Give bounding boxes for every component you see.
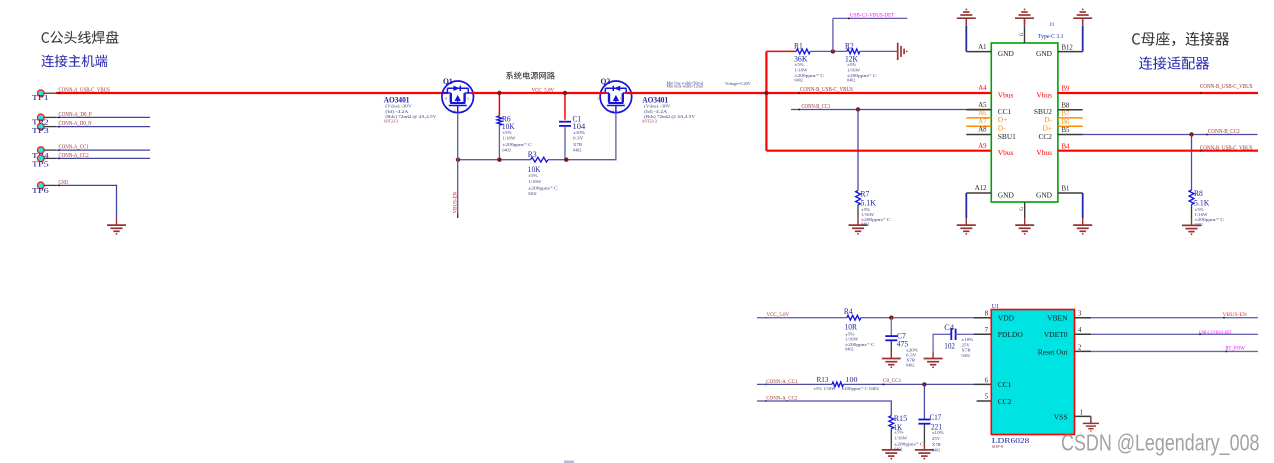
svg-text:±200ppm/° C: ±200ppm/° C [528,186,558,191]
junction at C1/VBUS [563,91,567,95]
wire VBUS to A9 (red) [766,150,991,152]
wire Q1 gate drop and VBUS-EN stub [457,113,459,214]
wire C17 top [923,384,925,419]
ground (top middle, inverted) [1024,18,1026,25]
resistor R2 [847,49,860,54]
svg-text:2: 2 [1078,344,1082,351]
svg-text:A8: A8 [978,127,987,134]
wire R8 top [1191,135,1193,191]
svg-text:1/16W: 1/16W [528,179,542,184]
ground (top right, inverted) [1082,18,1084,25]
svg-text:G: G [1020,207,1025,211]
svg-text:B4: B4 [1062,143,1071,150]
svg-text:±5% 1/16W: ±5% 1/16W [814,386,837,391]
capacitor C7 [885,335,897,337]
junction CC2/R8 [1189,132,1193,136]
svg-text:0402: 0402 [861,222,869,227]
svg-text:6: 6 [985,377,989,384]
svg-text:10R: 10R [845,322,858,331]
pin stub B1 [1058,192,1083,194]
wire CONN-A_D0_N (TP3) [56,126,150,128]
svg-text:100: 100 [846,375,858,384]
svg-text:C0_CC1: C0_CC1 [883,379,902,384]
svg-text:C17: C17 [930,413,942,422]
wire CONN-A_USB-C_VBUS (TP1, red VBUS to Q1) [56,92,447,94]
test point TP5 pad [38,155,45,162]
svg-text:R2: R2 [845,41,854,50]
svg-text:±5%: ±5% [795,62,805,67]
svg-text:VBUS-EN: VBUS-EN [453,191,458,213]
svg-text:5: 5 [985,393,989,400]
svg-text:R4: R4 [844,307,853,316]
pin stub A5 [967,109,991,111]
title host-side line 1 (traced CJK) [42,31,119,44]
svg-text:0402: 0402 [795,78,803,83]
pin stub B5 [1058,134,1083,136]
resistor R8 [1189,190,1194,205]
pin stub B7 [1058,117,1083,119]
pin stub 1 (VSS) + drop [1075,415,1091,417]
junction R1/R2 divider [831,49,835,53]
ground (VSS) [1083,417,1099,431]
test point TP2 pad [38,114,45,121]
svg-text:Vbus: Vbus [998,90,1014,99]
wire R6 bottom [498,125,500,160]
svg-text:CSDN @Legendary_008: CSDN @Legendary_008 [1061,429,1260,455]
wire gate row left segment [458,159,531,161]
svg-text:±5%: ±5% [847,62,857,67]
wire C1 top feed (red) [564,93,566,120]
wire C17 bottom [923,424,925,443]
svg-text:SBU1: SBU1 [998,132,1016,141]
resistor R3 [531,157,549,162]
svg-text:8: 8 [985,311,989,318]
svg-text:GND: GND [998,49,1015,58]
svg-text:C4: C4 [944,323,954,332]
wire B9 CONN-B_USB-C_VBUS (red) [1058,92,1258,94]
wire R1 to R2 [810,50,847,52]
svg-text:B5: B5 [1062,127,1071,134]
wire R2 to ground [860,50,898,52]
junction R6 / gate row [497,158,501,162]
connector J1 body (green box) [991,43,1058,202]
bottom edge text remnant [564,461,574,463]
svg-text:±5%: ±5% [502,130,512,135]
ground (C17) [923,443,925,450]
svg-text:A7: A7 [978,118,987,125]
svg-text:CC2: CC2 [998,397,1012,406]
ground (TP6) [116,218,118,225]
wire CC1 row left [757,383,832,385]
svg-text:B12: B12 [1062,44,1074,51]
pin stub 4 (VDET0) [1075,333,1092,335]
wire red feed to R1 [766,50,796,52]
wire C1 bottom [564,126,566,160]
svg-text:Vbus: Vbus [1036,148,1052,157]
svg-text:CONN-B_USB-C_VBUS: CONN-B_USB-C_VBUS [800,87,853,93]
wire A1 to top ground [965,26,967,52]
ground (after R2, sideways) [897,43,899,60]
ground (C7) [890,352,892,359]
svg-text:0402: 0402 [845,346,853,351]
wire CONN-B_CC1 [791,109,967,111]
svg-text:CONN-A_D0_N: CONN-A_D0_N [59,121,93,127]
svg-text:B9: B9 [1062,86,1071,93]
wire CC1 row right [844,383,974,385]
title adapter-side line 2 (traced CJK) [1139,56,1209,69]
pin stub A5 [966,109,991,111]
svg-text:VBUS-EN: VBUS-EN [1223,312,1248,318]
svg-text:GND: GND [1036,190,1053,199]
title host-side line 2 (traced CJK) [42,55,108,67]
svg-text:S: S [597,96,599,100]
resistor R1 [796,49,810,54]
wire VDD row right [861,317,974,319]
resistor R6 [497,116,502,125]
svg-text:0402: 0402 [573,147,581,152]
svg-text:0402: 0402 [1195,222,1203,227]
shield pin G bottom [1024,202,1026,218]
resistor R7 [856,191,861,206]
svg-text:B6: B6 [1062,119,1071,126]
svg-text:0402: 0402 [528,191,536,196]
svg-text:TP5: TP5 [32,159,49,168]
wire A12 to ground [965,193,967,218]
svg-text:J1: J1 [1050,22,1055,28]
svg-text:R15: R15 [894,414,907,423]
resistor R13 [832,382,844,387]
wire C7 top [890,318,892,337]
wire B1 to ground [1082,193,1084,218]
svg-text:SOT23-3: SOT23-3 [642,119,657,124]
wire R8 bottom [1191,205,1193,219]
svg-text:A6: A6 [978,110,987,117]
pin stub 2 (Reset Out) [1075,350,1092,352]
wire CONN-A_CC2 (TP5) [56,157,150,159]
title adapter-side line 1 (traced CJK) [1132,32,1229,46]
test point TP6 pad [38,182,45,189]
junction CC1/C17 [922,382,926,386]
wire B5 CONN-B_CC2 [1083,134,1258,136]
svg-text:B1: B1 [1062,186,1070,193]
svg-text:CC1: CC1 [998,380,1012,389]
ground (R8) [1191,218,1193,225]
wire VDD row left [757,317,847,319]
svg-text:±10%: ±10% [962,337,974,342]
wire B4 CONN-B_USB-C_VBUS (red) [1058,150,1258,152]
wire CONN-A_CC1 (TP4) [56,149,150,151]
svg-text:VDET0: VDET0 [1044,330,1068,339]
wire R7 bottom [857,205,859,218]
svg-text:Vbus: Vbus [998,148,1014,157]
wire CONN-A_D0_P (TP2) [56,116,150,118]
wire R6 top feed (red) [498,93,500,116]
svg-text:A12: A12 [975,185,987,192]
capacitor C17 [918,419,930,421]
svg-text:RT_POW: RT_POW [1225,346,1245,351]
pin stub A1 [966,51,991,53]
svg-text:CC2: CC2 [1038,132,1052,141]
junction at R6/VBUS [497,91,501,95]
svg-text:Vbus: Vbus [1036,90,1052,99]
svg-text:VDD: VDD [998,314,1015,323]
transistor Q2 (AO3401 P-MOSFET, mirrored) [600,81,632,113]
wire VBUS between Q1 and Q2 (red) [472,92,606,94]
pin stub A6 [966,117,991,119]
pin stub B12 [1058,51,1083,53]
pin stub 3 (VBEN) [1075,317,1092,319]
test point TP4 pad [38,147,45,154]
junction VDD/C7 [889,316,893,320]
svg-text:G: G [1020,32,1025,36]
pin stub B6 [1058,125,1083,127]
transistor Q1 (AO3401 P-MOSFET) [442,81,474,113]
svg-text:VBEN: VBEN [1047,314,1068,323]
svg-text:Reset Out: Reset Out [1038,347,1069,356]
wire VBUS from Q2 to connector A4 (red) [627,92,992,94]
svg-text:±5%: ±5% [528,173,538,178]
pin stub 6 (CC1) [974,383,992,385]
svg-text:6.3V: 6.3V [573,135,584,140]
svg-text:Type-C 3.1: Type-C 3.1 [1038,33,1063,40]
junction VBUS vertical/horizontal [764,91,768,95]
svg-text:0402: 0402 [894,447,902,452]
wire VBUS vertical at x=766 (red) [765,51,767,150]
capacitor C1 [559,121,571,123]
svg-text:1/16W: 1/16W [795,67,809,72]
svg-text:PDLDO: PDLDO [998,330,1024,339]
svg-text:25V: 25V [932,436,941,441]
svg-text:S: S [467,96,469,100]
pin stub 8 (VDD) [974,317,992,319]
capacitor C4 [950,329,952,340]
ground (R15) [890,443,892,450]
svg-text:R13: R13 [817,375,829,384]
svg-text:B8: B8 [1062,103,1071,110]
wire R7 top [857,110,859,191]
wire R15 bottom [890,429,892,444]
ground (A12) [965,218,967,225]
svg-text:B7: B7 [1062,111,1071,118]
pin stub A8 [966,134,991,136]
svg-text:TP6: TP6 [32,186,49,195]
pin stub 5 (CC2) [977,400,992,402]
svg-text:SOT23-3: SOT23-3 [384,119,399,124]
svg-text:A4: A4 [978,85,987,92]
wire C7 bottom [890,341,892,352]
wire GND (TP6) [56,184,117,186]
title system power network (traced CJK) [506,72,555,80]
ground (B1) [1082,218,1084,225]
svg-text:1/16W: 1/16W [894,435,908,440]
svg-text:Voltage=5.20V: Voltage=5.20V [725,81,751,86]
test point TP3 pad [38,123,45,130]
ground (C4 left) [932,352,934,359]
ground (R7) [857,218,859,225]
wire RT_POW [1091,350,1258,352]
svg-text:±5%: ±5% [894,430,904,435]
svg-text:7: 7 [985,327,989,334]
svg-text:1/16W: 1/16W [502,135,516,140]
resistor R4 [847,315,861,320]
pin stub B8 [1058,109,1083,111]
svg-text:X7R: X7R [962,348,971,353]
svg-text:1/16W: 1/16W [847,67,861,72]
svg-text:USB-C1/VBUS-DET: USB-C1/VBUS-DET [1199,329,1232,334]
svg-text:X7R: X7R [932,442,941,447]
svg-text:CONN-B_CC1: CONN-B_CC1 [802,104,831,110]
pin stub A7 [966,125,991,127]
wire gate row right segment [548,159,616,161]
svg-text:CONN-B_CC2: CONN-B_CC2 [1208,129,1240,135]
svg-text:4: 4 [1078,327,1082,334]
svg-text:GND: GND [998,190,1015,199]
svg-text:0402: 0402 [502,147,510,152]
svg-text:±200ppm/° C 0402: ±200ppm/° C 0402 [842,386,879,391]
svg-text:CONN-B_USB-C_VBUS: CONN-B_USB-C_VBUS [1200,84,1253,90]
ground (top left, inverted) [965,18,967,25]
svg-text:3: 3 [1078,311,1082,318]
svg-text:SOP-8: SOP-8 [992,444,1003,449]
wire VBUS-EN [1091,317,1258,319]
svg-text:A9: A9 [978,143,987,150]
svg-text:TP3: TP3 [32,126,49,135]
wire USB-C1-VBUS-DET [832,18,834,51]
svg-text:CONN-A_CC2: CONN-A_CC2 [59,153,89,159]
wire CC2 row [757,400,891,402]
svg-text:0402: 0402 [932,447,940,452]
junction C1 / gate row [564,158,568,162]
svg-text:R1: R1 [794,41,803,50]
pin stub A12 [966,192,991,194]
svg-text:R3: R3 [528,150,537,159]
wire B12 to top ground [1082,26,1084,52]
test point TP1 pad [38,90,45,97]
pin stub 7 (PDLDO) [974,333,992,335]
wire USB-C1/VBUS-DET [1091,333,1258,335]
wire C4 left + drop [933,333,951,335]
IC U1 LDR6028 body [991,310,1074,435]
svg-text:0402: 0402 [962,353,970,358]
svg-text:R7: R7 [861,189,870,198]
svg-text:A1: A1 [978,44,986,51]
svg-text:CONN-B_USB-C_VBUS: CONN-B_USB-C_VBUS [1200,145,1253,151]
shield pin G top [1024,26,1026,43]
wire C4 right [956,333,974,335]
svg-text:GND: GND [1036,49,1053,58]
svg-text:1/16W: 1/16W [845,336,859,341]
svg-text:Min neck width=12mil: Min neck width=12mil [667,85,703,89]
svg-text:R8: R8 [1194,189,1203,198]
svg-text:TP1: TP1 [32,93,49,102]
svg-text:±10%: ±10% [573,130,585,135]
svg-text:CONN-A_CC1: CONN-A_CC1 [59,145,89,151]
resistor R15 [889,416,894,429]
junction Q1 gate / gate row [456,158,460,162]
svg-text:CONN-A_USB-C_VBUS: CONN-A_USB-C_VBUS [59,87,110,93]
svg-text:VSS: VSS [1054,412,1068,421]
svg-text:102: 102 [944,341,955,350]
svg-text:0402: 0402 [847,78,855,83]
junction CC1/R7 [856,107,860,111]
svg-text:0402: 0402 [906,363,914,368]
svg-text:±10%: ±10% [932,430,944,435]
svg-text:USB-C1-VBUS-DET: USB-C1-VBUS-DET [850,13,894,18]
wire Q2 gate drop [615,113,617,161]
svg-text:A5: A5 [978,102,987,109]
ground (bottom middle) [1024,218,1026,225]
svg-text:1: 1 [1080,409,1083,416]
svg-text:GND: GND [59,180,69,186]
svg-text:CONN-A_D0_P: CONN-A_D0_P [59,112,92,118]
svg-text:U1: U1 [992,304,999,310]
